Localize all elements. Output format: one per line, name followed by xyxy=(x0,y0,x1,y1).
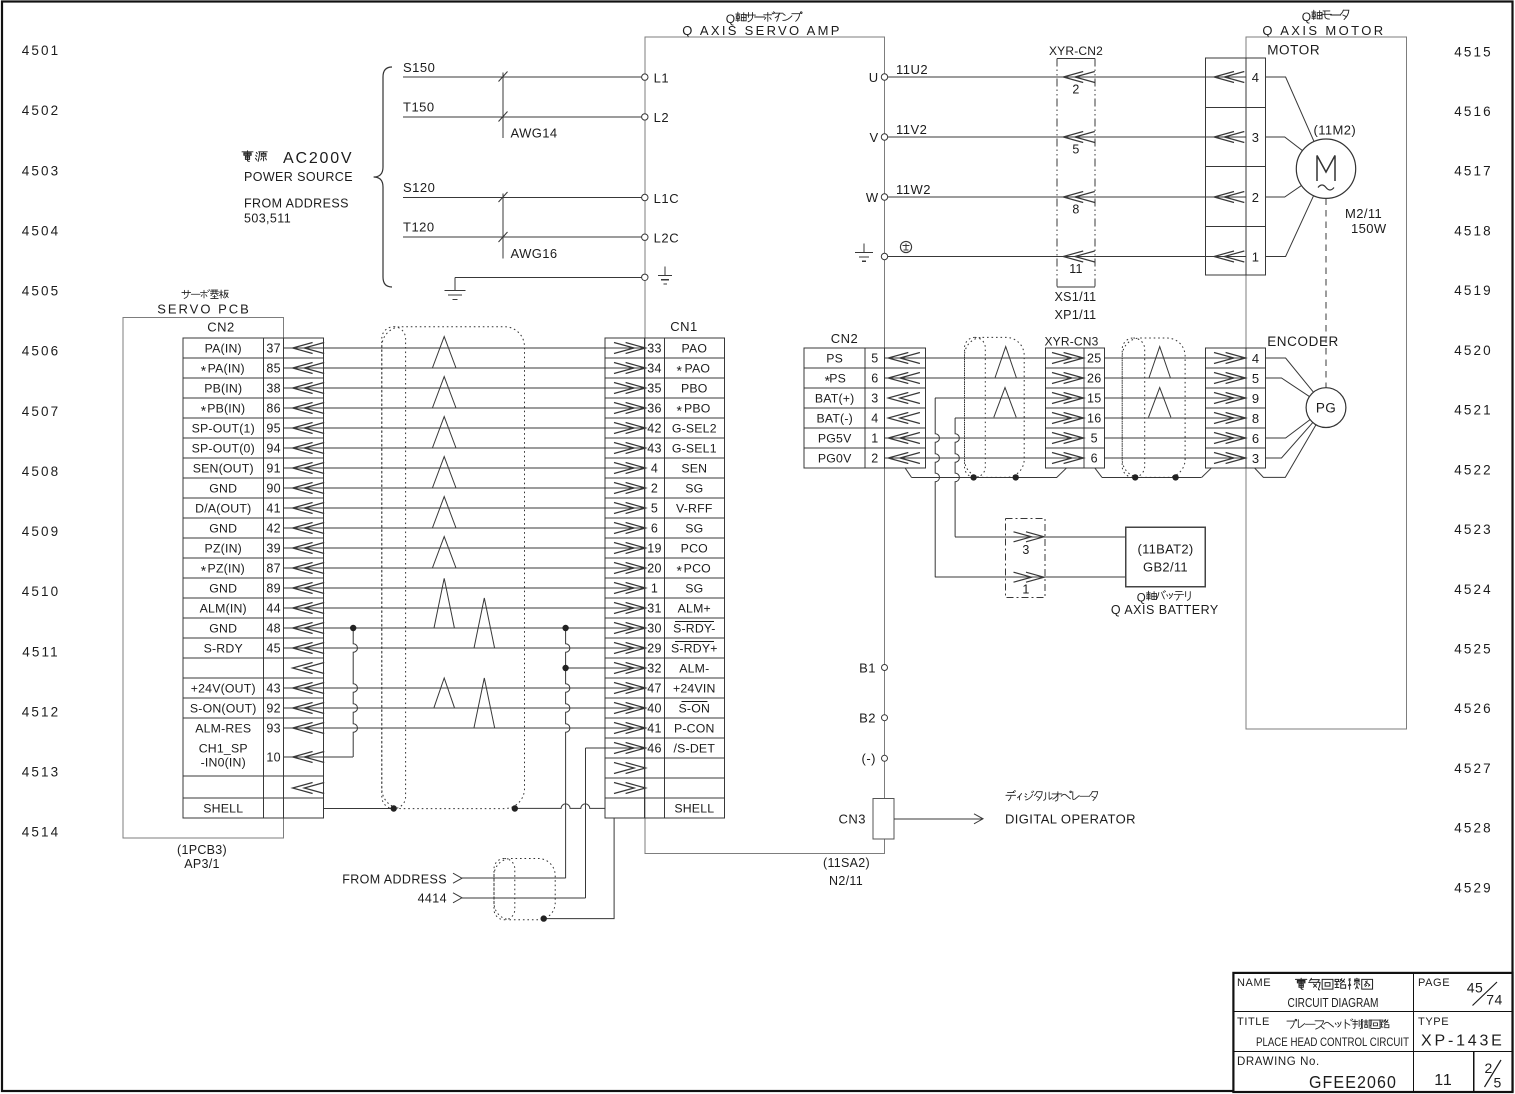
left CN2 pin 87 *PZ(IN) xyxy=(201,562,324,579)
left CN2 pin 39 PZ(IN) xyxy=(205,542,325,556)
svg-text:4508: 4508 xyxy=(22,464,60,479)
svg-text:*: * xyxy=(677,363,683,379)
label power source (jp 電源 AC200V) xyxy=(242,150,353,184)
svg-text:4502: 4502 xyxy=(22,103,60,118)
svg-text:4503: 4503 xyxy=(22,163,60,178)
CN1 pin 31 ALM+ xyxy=(605,602,711,616)
CN1 table grid xyxy=(605,338,724,818)
svg-text:11U2: 11U2 xyxy=(896,62,928,77)
svg-text:CN2: CN2 xyxy=(831,331,859,346)
label Q AXIS BATTERY (jp+en) xyxy=(1111,591,1219,617)
shield dots right section xyxy=(970,474,1178,480)
wire T120 to L2C xyxy=(403,236,645,238)
svg-text:11: 11 xyxy=(1434,1072,1453,1089)
CN1 pin 30 S-RDY- xyxy=(605,622,716,636)
ground symbol at power input xyxy=(445,291,466,300)
label M2/11 150W xyxy=(1345,206,1387,236)
svg-text:L2C: L2C xyxy=(654,231,680,246)
terminal B2 xyxy=(859,711,887,726)
svg-text:*: * xyxy=(677,403,683,419)
svg-text:93: 93 xyxy=(266,722,281,736)
battery connector pin 1 arrow xyxy=(1005,572,1045,596)
svg-text:2: 2 xyxy=(651,482,658,496)
left CN2 pin 43 +24V(OUT) xyxy=(191,682,324,696)
terminal B1 xyxy=(859,660,887,675)
svg-text:4516: 4516 xyxy=(1454,104,1492,119)
wire ALM- from junction to CN1 32 xyxy=(566,667,605,669)
svg-text:11W2: 11W2 xyxy=(896,182,931,197)
svg-text:Q AXIS BATTERY: Q AXIS BATTERY xyxy=(1111,603,1219,617)
svg-text:S-RDY: S-RDY xyxy=(204,642,243,656)
svg-text:6: 6 xyxy=(651,522,658,536)
XYR-CN2 pin 11 arrow xyxy=(1063,251,1095,276)
cable mark AWG16 xyxy=(499,192,558,261)
svg-text:25: 25 xyxy=(1087,352,1102,366)
label XS1/11 XP1/11 xyxy=(1055,290,1097,322)
riser GND48/ALM- to FROM ADDRESS (right) xyxy=(562,625,570,878)
svg-text:TITLE: TITLE xyxy=(1237,1016,1270,1028)
svg-text:4528: 4528 xyxy=(1454,821,1492,836)
svg-text:U: U xyxy=(869,70,879,85)
motor connector pin 3 xyxy=(1206,130,1260,145)
svg-text:4521: 4521 xyxy=(1454,403,1492,418)
svg-text:11V2: 11V2 xyxy=(896,122,927,137)
CN1 pin 1 SG xyxy=(605,582,703,596)
servo pcb AP3/1 box xyxy=(123,318,284,838)
svg-text:42: 42 xyxy=(647,422,662,436)
svg-text:45: 45 xyxy=(1467,980,1484,996)
title block xyxy=(1233,973,1512,1092)
svg-text:41: 41 xyxy=(266,502,281,516)
svg-text:B1: B1 xyxy=(859,660,876,675)
svg-text:SP-OUT(1): SP-OUT(1) xyxy=(192,422,255,436)
svg-text:4515: 4515 xyxy=(1454,44,1492,59)
svg-text:31: 31 xyxy=(647,602,662,616)
svg-text:POWER SOURCE: POWER SOURCE xyxy=(244,170,353,184)
svg-text:(-): (-) xyxy=(862,751,877,766)
svg-text:2: 2 xyxy=(1072,83,1079,97)
terminal earth on amp right xyxy=(881,253,887,259)
svg-text:M2/11: M2/11 xyxy=(1345,206,1382,221)
label (1PCB3) AP3/1 xyxy=(177,843,227,871)
svg-text:SG: SG xyxy=(685,522,703,536)
CN1 pin 42 G-SEL2 xyxy=(605,422,717,436)
XYR-CN3 pin 6 xyxy=(1046,452,1098,466)
svg-text:(11BAT2): (11BAT2) xyxy=(1137,542,1193,557)
svg-text:GND: GND xyxy=(209,482,237,496)
svg-text:GND: GND xyxy=(209,622,237,636)
amp CN2 pin 5 PS xyxy=(826,352,925,366)
svg-text:T120: T120 xyxy=(403,220,435,235)
svg-text:19: 19 xyxy=(647,542,662,556)
svg-text:4501: 4501 xyxy=(22,43,60,58)
svg-text:XYR-CN3: XYR-CN3 xyxy=(1044,335,1098,349)
svg-text:87: 87 xyxy=(266,562,281,576)
XYR-CN2 pin 5 arrow xyxy=(1063,132,1095,157)
left CN2 pin 10 CH1_SP-IN0(IN) xyxy=(199,742,324,770)
battery connector pin 3 arrow xyxy=(1005,532,1045,557)
svg-text:GND: GND xyxy=(209,582,237,596)
svg-text:PG5V: PG5V xyxy=(818,432,852,446)
XYR-CN3 pin 26 xyxy=(1046,372,1102,386)
svg-text:4: 4 xyxy=(651,462,658,476)
svg-text:CIRCUIT DIAGRAM: CIRCUIT DIAGRAM xyxy=(1288,996,1379,1010)
svg-text:ENCODER: ENCODER xyxy=(1267,334,1339,349)
svg-text:G-SEL2: G-SEL2 xyxy=(672,422,717,436)
CN1 pin 41 P-CON xyxy=(605,722,715,736)
XYR-CN2 pin 8 arrow xyxy=(1063,192,1095,217)
svg-text:44: 44 xyxy=(266,602,281,616)
svg-text:36: 36 xyxy=(647,402,662,416)
svg-text:*: * xyxy=(201,563,207,579)
address grid labels left 4501-4514 xyxy=(22,43,60,840)
svg-text:1: 1 xyxy=(871,432,878,446)
shield junction dots xyxy=(391,805,519,811)
svg-text:4522: 4522 xyxy=(1454,462,1492,477)
left CN2 pin 92 S-ON(OUT) xyxy=(190,702,324,716)
wires encoder pins to PG xyxy=(1255,358,1326,477)
svg-text:PLACE HEAD CONTROL CIRCUIT: PLACE HEAD CONTROL CIRCUIT xyxy=(1256,1035,1409,1049)
svg-text:SG: SG xyxy=(685,482,703,496)
svg-text:SHELL: SHELL xyxy=(203,802,243,816)
svg-text:ALM(IN): ALM(IN) xyxy=(200,602,247,616)
terminal L1 on servo amp xyxy=(642,70,670,85)
svg-text:+24V(OUT): +24V(OUT) xyxy=(191,682,256,696)
terminal L2C on servo amp xyxy=(642,231,680,246)
svg-text:PZ(IN): PZ(IN) xyxy=(208,562,245,576)
bottom shield junction dot xyxy=(541,915,547,921)
dashed link M to PG xyxy=(1325,198,1327,387)
svg-text:11: 11 xyxy=(1069,262,1083,276)
svg-text:35: 35 xyxy=(647,382,662,396)
svg-text:CH1_SP: CH1_SP xyxy=(199,742,248,756)
left CN2 pin 38 PB(IN) xyxy=(204,382,324,396)
svg-text:W: W xyxy=(866,190,879,205)
svg-text:5: 5 xyxy=(1091,432,1098,446)
svg-text:4513: 4513 xyxy=(22,765,60,780)
amp CN2 pin 3 BAT(+) xyxy=(815,392,920,406)
XYR-CN3 pin 5 xyxy=(1046,432,1098,446)
CN1 pin 19 PCO xyxy=(605,542,708,556)
svg-text:XP-143E: XP-143E xyxy=(1421,1033,1505,1050)
svg-text:95: 95 xyxy=(266,422,281,436)
XYR-CN3 pin 16 xyxy=(1046,412,1102,426)
svg-text:4: 4 xyxy=(1252,351,1260,366)
encoder connector table grid xyxy=(1206,348,1266,468)
left CN2 pin 90 GND xyxy=(209,482,324,496)
svg-text:GND: GND xyxy=(209,522,237,536)
wire S150 to L1 xyxy=(403,76,645,78)
svg-text:DIGITAL OPERATOR: DIGITAL OPERATOR xyxy=(1005,812,1136,827)
svg-text:MOTOR: MOTOR xyxy=(1267,43,1320,58)
svg-text:4505: 4505 xyxy=(22,284,60,299)
motor unit box xyxy=(1246,37,1407,729)
svg-text:4525: 4525 xyxy=(1454,642,1492,657)
svg-text:1: 1 xyxy=(651,582,658,596)
svg-text:Q AXIS MOTOR: Q AXIS MOTOR xyxy=(1262,23,1385,38)
title block PAGE 45/74 xyxy=(1418,977,1503,1008)
svg-text:(11M2): (11M2) xyxy=(1314,123,1357,138)
left CN2 spare row arrow xyxy=(293,663,313,674)
svg-text:26: 26 xyxy=(1087,372,1102,386)
svg-text:/S-DET: /S-DET xyxy=(674,742,716,756)
svg-text:90: 90 xyxy=(266,482,281,496)
wire T150 to L2 xyxy=(403,116,645,118)
svg-text:-IN0(IN): -IN0(IN) xyxy=(201,756,246,770)
svg-text:NAME: NAME xyxy=(1237,977,1271,989)
svg-text:5: 5 xyxy=(1252,371,1260,386)
wire S120 to L1C xyxy=(403,197,645,199)
motor connector pin 2 xyxy=(1206,190,1260,205)
svg-text:3: 3 xyxy=(1022,543,1029,557)
wire *PS xyxy=(925,377,1205,379)
terminal earth on servo amp xyxy=(642,274,648,280)
svg-text:CN1: CN1 xyxy=(670,319,698,334)
svg-text:32: 32 xyxy=(647,662,662,676)
svg-text:4: 4 xyxy=(1252,70,1260,85)
svg-text:PAO: PAO xyxy=(681,342,707,356)
wire BAT(-) riser to battery pin 3 xyxy=(955,418,1005,537)
shield loop pair1 big xyxy=(965,337,1025,477)
svg-text:PAO: PAO xyxy=(684,362,710,376)
svg-text:9: 9 xyxy=(1252,391,1260,406)
wire earth to amp ground terminal xyxy=(455,277,645,290)
signal wires PCB CN2 to CN1 rows 0-15 xyxy=(324,348,605,648)
svg-text:16: 16 xyxy=(1087,412,1102,426)
svg-text:S120: S120 xyxy=(403,180,435,195)
label Q AXIS MOTOR (jp+en) xyxy=(1262,10,1385,38)
left CN2 pin 41 D/A(OUT) xyxy=(195,502,324,516)
svg-text:1: 1 xyxy=(1022,582,1029,596)
terminal V xyxy=(870,130,888,145)
svg-text:XS1/11: XS1/11 xyxy=(1055,290,1097,304)
svg-text:P-CON: P-CON xyxy=(674,722,715,736)
svg-text:2: 2 xyxy=(1252,190,1260,205)
shield loop pair1 narrow xyxy=(965,337,986,477)
svg-text:91: 91 xyxy=(266,462,281,476)
svg-text:PA(IN): PA(IN) xyxy=(208,362,245,376)
svg-text:XYR-CN2: XYR-CN2 xyxy=(1049,44,1103,58)
bottom shield loop (big) xyxy=(494,859,555,920)
cable mark AWG14 xyxy=(499,72,558,141)
wire BAT(-) xyxy=(955,417,1206,419)
svg-text:SEN(OUT): SEN(OUT) xyxy=(193,462,254,476)
CN1 spare row arrow xyxy=(614,763,634,774)
svg-text:6: 6 xyxy=(871,372,878,386)
CN1 pin 35 PBO xyxy=(605,382,708,396)
svg-text:42: 42 xyxy=(266,522,281,536)
svg-text:4510: 4510 xyxy=(22,584,60,599)
svg-text:2: 2 xyxy=(871,452,878,466)
wire CH1_SP stub xyxy=(324,756,354,758)
left CN2 pin 85 *PA(IN) xyxy=(201,362,324,379)
svg-text:V-RFF: V-RFF xyxy=(676,502,713,516)
left CN2 spare row arrow 2 xyxy=(293,783,313,794)
svg-text:S-RDY-: S-RDY- xyxy=(673,622,715,636)
left CN2 pin 44 ALM(IN) xyxy=(200,602,325,616)
svg-text:PAGE: PAGE xyxy=(1418,977,1450,989)
svg-text:SHELL: SHELL xyxy=(674,802,714,816)
twisted pair marks left section xyxy=(432,337,494,728)
CN1 pin 5 V-RFF xyxy=(605,502,713,516)
svg-text:45: 45 xyxy=(266,642,281,656)
wire BAT(+) riser to battery pin 1 xyxy=(935,398,1005,577)
svg-text:43: 43 xyxy=(647,442,662,456)
svg-text:PB(IN): PB(IN) xyxy=(204,382,242,396)
CN1 pin 4 SEN xyxy=(605,462,707,476)
wire motor earth xyxy=(885,256,1206,258)
encoder PG symbol xyxy=(1306,388,1346,428)
svg-text:S-RDY+: S-RDY+ xyxy=(671,642,718,656)
terminal (-) xyxy=(862,751,888,766)
svg-text:SERVO PCB: SERVO PCB xyxy=(157,302,251,317)
svg-text:Q AXIS SERVO AMP: Q AXIS SERVO AMP xyxy=(682,23,841,38)
svg-text:PA(IN): PA(IN) xyxy=(205,342,242,356)
svg-text:GFEE2060: GFEE2060 xyxy=(1309,1072,1397,1092)
CN1 pin 6 SG xyxy=(605,522,703,536)
terminal L1C on servo amp xyxy=(642,191,680,206)
encoder pin 8 xyxy=(1206,411,1260,426)
left CN2 pin 37 PA(IN) xyxy=(205,342,325,356)
svg-text:4: 4 xyxy=(871,412,878,426)
svg-text:*: * xyxy=(677,563,683,579)
wire /S-DET from riser to CN1 46 xyxy=(585,747,605,749)
terminal W xyxy=(866,190,888,205)
svg-text:S-ON: S-ON xyxy=(679,702,711,716)
svg-text:5: 5 xyxy=(651,502,658,516)
svg-text:PS: PS xyxy=(826,352,843,366)
svg-text:3: 3 xyxy=(1252,451,1260,466)
wires motor pins to M xyxy=(1265,77,1326,257)
svg-text:86: 86 xyxy=(266,402,281,416)
label DIGITAL OPERATOR (jp+en) xyxy=(1005,791,1136,827)
left CN2 pin 93 ALM-RES xyxy=(195,722,324,736)
twisted pair marks right section xyxy=(994,347,1171,418)
svg-text:PZ(IN): PZ(IN) xyxy=(205,542,242,556)
svg-text:AWG14: AWG14 xyxy=(511,126,558,141)
label Q AXIS SERVO AMP (jp+en) xyxy=(682,12,841,38)
svg-text:S-ON(OUT): S-ON(OUT) xyxy=(190,702,257,716)
svg-text:*: * xyxy=(201,363,207,379)
svg-text:ALM-: ALM- xyxy=(679,662,709,676)
svg-text:3: 3 xyxy=(1252,130,1260,145)
motor connector table xyxy=(1206,58,1266,275)
CN1 pin 43 G-SEL1 xyxy=(605,442,717,456)
svg-text:20: 20 xyxy=(647,562,662,576)
left CN2 pin 45 S-RDY xyxy=(204,642,325,656)
svg-text:4519: 4519 xyxy=(1454,283,1492,298)
svg-text:38: 38 xyxy=(266,382,281,396)
svg-text:150W: 150W xyxy=(1351,221,1387,236)
svg-text:S150: S150 xyxy=(403,60,435,75)
svg-text:PS: PS xyxy=(829,372,846,386)
amp CN2 pin 6 *PS xyxy=(825,372,926,389)
CN1 pin 34 *PAO xyxy=(605,362,710,379)
svg-text:TYPE: TYPE xyxy=(1418,1016,1449,1028)
encoder pin 5 xyxy=(1206,371,1260,386)
motor connector pin 4 xyxy=(1206,70,1260,85)
svg-text:85: 85 xyxy=(266,362,281,376)
left CN2 pin 91 SEN(OUT) xyxy=(193,462,324,476)
svg-text:*: * xyxy=(201,403,207,419)
svg-text:5: 5 xyxy=(871,352,878,366)
amp CN2 table grid xyxy=(804,348,925,468)
shield loop pair2 big xyxy=(1122,338,1185,477)
amp CN2 pin 4 BAT(-) xyxy=(816,412,919,426)
wire shield drain to CN1 shell area xyxy=(544,819,614,919)
svg-text:34: 34 xyxy=(647,362,662,376)
label FROM ADDRESS 503,511 xyxy=(244,197,349,226)
left CN2 pin 42 GND xyxy=(209,522,324,536)
encoder pin 4 xyxy=(1206,351,1260,366)
svg-text:4509: 4509 xyxy=(22,524,60,539)
wire PS xyxy=(925,357,1205,359)
svg-text:PBO: PBO xyxy=(681,382,708,396)
svg-text:BAT(+): BAT(+) xyxy=(815,392,855,406)
wire from-address 2 xyxy=(462,897,585,899)
svg-text:2: 2 xyxy=(1484,1060,1492,1076)
svg-text:D/A(OUT): D/A(OUT) xyxy=(195,502,251,516)
label (11SA2) N2/11 xyxy=(823,856,870,888)
earth symbol at amp left terminal xyxy=(664,267,666,276)
label SERVO PCB (jp+en) xyxy=(157,290,251,317)
svg-text:46: 46 xyxy=(647,742,662,756)
svg-text:DRAWING No.: DRAWING No. xyxy=(1237,1056,1320,1068)
wire W 11W2 xyxy=(885,182,1206,197)
bottom shield loop (narrow) xyxy=(494,859,515,920)
svg-text:(11SA2): (11SA2) xyxy=(823,856,870,870)
svg-text:XP1/11: XP1/11 xyxy=(1055,308,1097,322)
svg-text:N2/11: N2/11 xyxy=(829,874,863,888)
address grid labels right 4515-4529 xyxy=(1454,44,1492,895)
svg-text:T150: T150 xyxy=(403,100,435,115)
left CN2 pin 48 GND xyxy=(209,622,324,636)
shell wire left table to CN1 xyxy=(324,804,605,809)
svg-text:89: 89 xyxy=(266,582,281,596)
svg-text:CN2: CN2 xyxy=(207,320,235,335)
svg-text:4523: 4523 xyxy=(1454,522,1492,537)
shield loop pair2 narrow xyxy=(1122,338,1145,477)
svg-text:4520: 4520 xyxy=(1454,343,1492,358)
svg-text:74: 74 xyxy=(1486,992,1503,1008)
svg-text:5: 5 xyxy=(1493,1075,1501,1091)
svg-text:AP3/1: AP3/1 xyxy=(184,857,220,871)
battery GB2/11 (11BAT2) xyxy=(1126,527,1206,586)
svg-text:FROM ADDRESS: FROM ADDRESS xyxy=(244,197,349,211)
svg-text:4414: 4414 xyxy=(418,892,447,906)
CN1 pin 32 ALM- xyxy=(605,662,709,676)
svg-text:+24VIN: +24VIN xyxy=(673,682,716,696)
svg-text:39: 39 xyxy=(266,542,281,556)
XYR-CN3 pin 15 xyxy=(1046,392,1102,406)
svg-text:40: 40 xyxy=(647,702,662,716)
svg-text:92: 92 xyxy=(266,702,281,716)
wire V 11V2 xyxy=(885,122,1206,137)
terminal U xyxy=(869,70,888,85)
svg-text:4507: 4507 xyxy=(22,404,60,419)
shield loop (narrow) between CN2 and CN1 xyxy=(382,327,406,809)
svg-text:94: 94 xyxy=(266,442,281,456)
arrowhead from-address 1 xyxy=(453,873,462,883)
svg-text:4512: 4512 xyxy=(22,704,60,719)
left CN2 pin 89 GND xyxy=(209,582,324,596)
CN1 spare row arrow xyxy=(614,783,634,794)
svg-text:6: 6 xyxy=(1091,452,1098,466)
svg-text:3: 3 xyxy=(871,392,878,406)
svg-text:8: 8 xyxy=(1252,411,1260,426)
svg-text:V: V xyxy=(870,130,879,145)
CN1 pin 40 S-ON xyxy=(605,702,710,716)
